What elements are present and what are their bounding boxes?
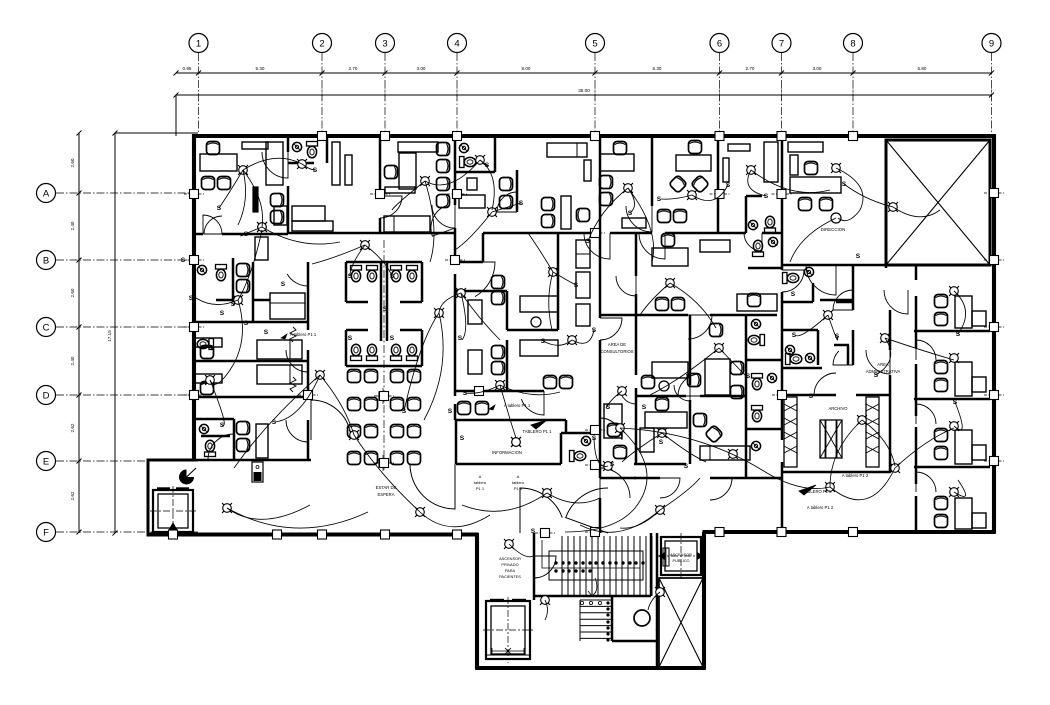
room1 shelf [242,142,268,149]
interior wall [781,301,813,304]
door arc [688,315,712,339]
center2 chairs2 [544,376,557,389]
mr6 bed [700,446,750,460]
room5 chairs [542,198,555,211]
dark quarter disc [179,470,194,485]
public elevator centerlines [658,555,704,557]
interior wall [379,218,382,233]
interior wall [346,329,368,332]
svg-text:S: S [791,291,796,298]
reception top chairs [458,402,471,415]
room6 chairs [600,176,613,189]
svg-text:2.60: 2.60 [70,158,75,167]
grid column circle 5 [586,34,605,53]
interior wall [717,136,720,233]
room3 desk [398,142,438,152]
svg-text:5.30: 5.30 [256,66,265,71]
door arc [782,270,804,292]
interior wall [565,420,568,433]
interior wall [745,196,748,233]
door arc [616,276,636,296]
interior wall [915,427,918,484]
abath2 sink [785,345,794,354]
interior wall [232,258,235,302]
interior wall [506,340,509,391]
outer wall bottom right [703,530,996,534]
grid column circle 6 [710,34,729,53]
direccion desk [790,155,798,175]
archivo cab 1 [784,397,797,467]
interior wall [379,136,382,196]
interior wall [611,596,614,641]
svg-text:S: S [181,257,186,264]
door arc [744,233,762,251]
svg-text:D: D [43,391,50,402]
top dimension line [176,72,992,74]
mr5 chair doc [656,398,669,411]
svg-text:S: S [458,335,463,342]
interior wall [636,314,688,317]
interior wall [194,321,308,324]
svg-text:DIRECCION: DIRECCION [821,227,846,232]
ceiling lights [233,160,253,180]
door arc [674,385,690,401]
interior wall [700,395,746,398]
interior wall [421,330,424,366]
grid column circle 4 [448,34,467,53]
svg-text:ARCHIVO: ARCHIVO [828,406,848,411]
door arc [286,420,308,442]
svg-text:S: S [686,373,691,380]
grid column line 3 [384,53,386,136]
leftbath chairs [237,422,250,435]
grid column line 5 [594,53,596,136]
svg-text:S: S [390,335,395,342]
waiting marker2 [379,459,387,467]
room1 guest chair [207,142,220,155]
svg-text:S: S [217,205,222,212]
interior wall [745,315,748,478]
abath2 wc [786,354,802,365]
door arc [710,478,732,500]
svg-text:S: S [684,463,689,470]
roomC2 bed [257,365,302,384]
interior wall [599,340,602,478]
room2 small table [274,206,287,225]
svg-text:S: S [383,306,388,313]
room3 side chairs [437,143,450,156]
interior wall [482,233,485,262]
door arc [455,262,495,297]
interior wall [762,232,782,235]
center2 desk [520,340,558,356]
interior wall [194,233,203,236]
room7 extra chairs [658,210,671,223]
interior wall [345,330,348,366]
interior wall [222,233,288,236]
grid row circle B [37,251,56,270]
room2 sink [292,142,301,151]
interior wall [812,283,815,302]
svg-text:35.00: 35.00 [578,88,590,93]
black arrow tablero1 [531,420,547,429]
interior wall [454,228,457,262]
sofa c2 [576,272,590,298]
interior wall [915,496,918,532]
door arc [208,434,234,460]
mr6 chairs [608,424,621,437]
interior wall [346,261,422,264]
cbath wc row top [351,266,362,282]
roomC2 desk [195,374,222,383]
interior wall [852,265,855,310]
door arc [286,350,308,372]
interior wall [194,396,308,399]
room6 cabinet [622,218,646,228]
svg-text:5: 5 [592,39,597,50]
office bay 1 chairs [935,295,948,308]
interior wall [326,136,329,163]
abath1 sink [804,267,813,276]
X room diagonal 1 [886,140,990,265]
interior wall [710,314,777,317]
interior wall [689,315,692,385]
sala door arc 2 [311,400,350,440]
center2 chairs [492,346,505,359]
room3 shelf [385,187,415,193]
svg-text:5.30: 5.30 [653,66,662,71]
interior wall [194,459,234,462]
interior wall [346,301,368,304]
bath-c sink [768,237,777,246]
left dimension line [78,133,80,533]
mr3 desk big [705,359,730,395]
cbath wc row bottom [351,344,362,360]
door arc [497,192,517,212]
light asc privado [499,534,519,554]
svg-text:4: 4 [454,39,459,50]
stairs room small circle [634,610,650,626]
interior wall [386,262,389,341]
door arc [584,233,610,259]
interior wall [560,433,563,464]
interior wall [746,428,782,431]
svg-text:5.80: 5.80 [918,66,927,71]
room5 desk [561,196,571,229]
svg-text:2.40: 2.40 [70,356,75,365]
svg-text:S: S [189,295,194,302]
waiting marker1 [379,392,387,400]
svg-text:8: 8 [850,39,855,50]
direccion chairs [799,198,812,211]
interior wall [307,350,310,400]
leftbath wc [205,440,216,456]
door arc [660,478,680,498]
grid column line 1 [198,53,200,136]
interior wall [494,136,497,172]
interior wall [656,533,659,668]
grid row circle F [37,523,56,542]
interior wall [635,233,638,276]
room2 desk [292,206,325,221]
svg-text:F: F [43,528,49,539]
bandB exam desk [270,293,305,319]
interior wall [507,329,558,332]
svg-text:S: S [856,253,861,260]
door arc [600,418,622,440]
grid row line C [56,326,198,328]
interior wall [781,292,784,440]
svg-text:A tablero P1 1: A tablero P1 1 [290,332,317,337]
bandB chairs [237,264,250,277]
bandB left wc [216,265,227,281]
room4 wc [460,157,476,168]
interior wall [216,299,233,302]
outer wall left [192,134,196,461]
grid column line 2 [321,53,323,136]
interior wall [599,498,602,533]
stair extension bottom wall [476,666,706,670]
door arc [287,262,308,286]
svg-text:E: E [43,457,49,468]
bath-d sink [767,373,776,382]
door arc [600,468,630,498]
svg-text:S: S [642,404,647,411]
svg-text:AREA DE: AREA DE [608,342,626,347]
interior wall [914,466,990,469]
interior wall [635,388,638,464]
grid row line F [56,531,198,533]
svg-text:S: S [657,196,662,203]
door arc [866,350,890,374]
interior wall [914,398,990,401]
grid column circle 3 [376,34,395,53]
center1 chairs [492,276,505,289]
roomC1 chair [201,346,214,359]
interior wall [287,136,290,152]
public elevator door mark [663,548,669,566]
office bay 2 chairs [935,361,948,374]
room5 sofa top [547,143,587,157]
interior wall [533,533,536,600]
door arc [626,206,652,232]
X room diagonal 2 [886,140,990,265]
bath-d wc [752,374,763,390]
svg-text:8.00: 8.00 [522,66,531,71]
panel box [252,462,263,482]
room4 sink [459,143,468,152]
door arc [262,152,288,178]
archivo cab center [820,420,842,458]
svg-text:S: S [574,282,579,289]
grid column circle 7 [772,34,791,53]
extension private elevator base [486,654,530,656]
room2 cabinets [332,142,340,185]
bath-c2 sink [751,319,760,328]
svg-text:S: S [874,372,879,379]
top overall dimension 35.00 [176,94,992,96]
elevator door marks [157,487,170,489]
stairs dashed landing [538,595,651,597]
svg-text:S: S [764,193,769,200]
room8 shelf [728,144,750,151]
left overall dimension 17.15 [114,133,116,533]
door arc [806,265,836,295]
svg-text:S: S [659,439,664,446]
mr5 chairs [694,414,707,427]
office bay 4 chairs [935,497,948,510]
private elevator centerlines [150,510,196,512]
interior wall [889,310,892,350]
wall junction squares [184,190,204,199]
grid column circle 9 [982,34,1001,53]
door arc [620,388,636,404]
extension private elevator cab [486,601,530,659]
roomC1 desk [195,338,222,347]
svg-text:S: S [281,281,286,288]
interior wall [456,290,507,293]
outer wall bottom left [147,532,479,536]
mr-b sofa [737,294,777,311]
svg-text:S: S [313,167,318,174]
archivo cab 2 [866,397,879,467]
svg-text:ASCENSOR: ASCENSOR [670,552,692,557]
mr6 table [604,404,622,438]
svg-text:ESPERA: ESPERA [378,492,395,497]
bandB cabinet [255,237,268,260]
office bay 4 desk [955,498,972,529]
svg-text:PUBLICO: PUBLICO [672,558,689,563]
center1 bed [468,300,482,324]
spring symbol 2 [290,377,296,392]
abath1 wc [783,273,799,284]
svg-text:A tablero P1 2: A tablero P1 2 [807,505,834,510]
room1 wall stub [253,187,258,212]
interior wall [746,195,762,198]
interior wall [400,301,422,304]
svg-text:P1 1: P1 1 [514,486,523,491]
door arc [534,556,556,578]
svg-text:S: S [809,393,814,400]
svg-text:S: S [448,408,453,415]
extension private elevator door marks [490,599,504,601]
svg-text:S: S [348,335,353,342]
sala door arc [410,464,455,509]
svg-text:PRIVADO: PRIVADO [501,562,518,567]
svg-text:TABLERO P1 1: TABLERO P1 1 [522,429,552,434]
interior wall [782,471,890,474]
grid row circle C [37,318,56,337]
interior wall [612,640,657,643]
office bay 2 desk [955,362,972,396]
grid row circle D [37,386,56,405]
room3 bed [384,216,430,232]
interior wall [856,394,890,397]
svg-text:tablero: tablero [474,480,487,485]
mr-b chairs [710,324,723,337]
svg-text:S: S [531,528,536,535]
elevator nook top wall [148,459,194,462]
bath8 sink [748,220,757,229]
room2 wc [307,142,318,158]
svg-text:9: 9 [989,39,994,50]
door arc [916,404,936,424]
door arc [639,233,665,259]
interior wall [307,262,310,330]
abath2 sink2 [805,353,814,362]
svg-text:S: S [460,435,465,442]
interior wall [634,477,660,480]
door arc [432,205,455,228]
room4 desk [459,195,485,208]
interior wall [915,296,918,348]
interior wall [820,299,852,302]
interior wall [834,344,849,347]
svg-text:S: S [220,310,225,317]
black arrow tablero3 [799,485,816,495]
leftbath sink [199,424,208,433]
room6 guest chair [614,142,627,155]
interior wall [201,435,230,438]
grid column line 4 [456,53,458,136]
room8 cabinet [723,158,729,182]
room4 table [467,178,477,190]
svg-text:C: C [43,323,50,334]
interior wall [307,420,310,460]
room4 chairs [500,178,513,191]
svg-text:7: 7 [779,39,784,50]
svg-text:0.95: 0.95 [183,66,192,71]
office bay 3 chairs [935,429,948,442]
svg-text:tablero: tablero [512,480,525,485]
office bay 1 desk [955,296,972,328]
bottom X shaft [659,578,703,667]
interior wall [506,291,509,330]
interior wall [454,136,457,205]
room3 chair [385,166,398,179]
room1 desk [200,154,237,171]
elevator shaft X room [886,140,990,265]
waiting area chairs [348,370,361,383]
svg-text:2: 2 [319,39,324,50]
interior wall [288,232,455,235]
main stairs [561,536,563,596]
interior wall [400,329,422,332]
interior wall [635,294,638,375]
svg-text:INFORMACION: INFORMACION [492,450,522,455]
svg-text:2.70: 2.70 [349,66,358,71]
bathroom centerline [383,240,385,470]
door arc [380,196,402,218]
interior wall [650,533,653,596]
interior wall [516,170,519,212]
svg-text:A: A [517,474,520,479]
svg-text:2.70: 2.70 [746,66,755,71]
interior wall [380,262,383,341]
svg-text:S: S [272,419,277,426]
interior wall [634,463,686,466]
bath-e sink [751,441,760,450]
elevator nook left wall [147,459,150,537]
room5 cabinet [584,160,591,181]
interior wall [636,395,686,398]
svg-text:1: 1 [196,39,201,50]
interior wall [194,360,308,363]
outer wall top [193,134,996,138]
svg-text:S: S [586,238,591,245]
direccion junction circle [831,213,841,223]
room7 desk [676,155,711,171]
